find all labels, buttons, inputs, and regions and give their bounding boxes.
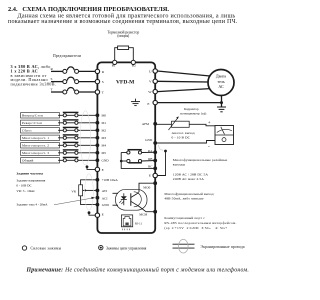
svg-text:ACI: ACI (102, 196, 108, 200)
switch row M5 (21, 150, 107, 156)
svg-text:Зажимы цепи управления: Зажимы цепи управления (106, 247, 147, 251)
terminal T (95, 90, 99, 94)
terminal M3 (96, 136, 100, 140)
terminal GND right (153, 141, 157, 145)
svg-text:M0: M0 (102, 114, 107, 118)
phase R input group (51, 67, 105, 74)
opto body (116, 189, 148, 210)
VFD-M inverter block U1 (97, 62, 155, 233)
terminal U (149, 69, 210, 76)
terminal M4 (96, 143, 100, 147)
node E junction (220, 101, 223, 104)
svg-text:Аналог. выход: Аналог. выход (172, 131, 195, 135)
terminal ACI (96, 196, 100, 200)
wire row GND (58, 159, 97, 161)
terminal RB (153, 159, 157, 163)
terminal M5 (96, 151, 100, 155)
fuse F1 (67, 67, 74, 70)
wire AFM to pot (155, 123, 171, 125)
wire row M5 (58, 152, 97, 154)
wire MCM (139, 206, 155, 211)
switch S-M0 (63, 111, 79, 113)
phase T input group (51, 87, 105, 94)
svg-text:RA: RA (148, 149, 153, 153)
wire relay common (121, 153, 155, 169)
svg-text:120В АС / 28В DC 5А: 120В АС / 28В DC 5А (173, 173, 209, 177)
switch S-M4 (63, 141, 79, 143)
trim potentiometer RP1 (172, 121, 190, 127)
svg-text:B1: B1 (112, 64, 116, 68)
svg-text:Задание напряжения: Задание напряжения (16, 179, 45, 183)
pin marks (123, 229, 130, 231)
switch S-M5 (63, 149, 79, 151)
terminal E right (147, 100, 221, 105)
opto input stubs (113, 192, 119, 194)
wire VR top to +10V (81, 180, 98, 185)
svg-text:+: + (208, 121, 211, 126)
relay contact RA (128, 149, 142, 151)
wire motor to ground (221, 96, 223, 108)
wire B2 lead (129, 48, 134, 63)
wire E shield tie (87, 167, 95, 169)
terminal RC (153, 167, 157, 171)
LED D1 (123, 193, 125, 196)
svg-text:выходы: выходы (173, 162, 186, 166)
wire phase T (51, 91, 63, 93)
svg-text:Вперед/Стоп: Вперед/Стоп (22, 113, 43, 117)
svg-text:M1: M1 (102, 121, 107, 125)
svg-text:RS-485 последовательным интерф: RS-485 последовательным интерфейсом. (164, 221, 236, 225)
terminal MO0 (153, 181, 157, 185)
svg-text:(опция): (опция) (117, 34, 130, 38)
switch S-M1 (63, 119, 79, 121)
svg-text:S: S (102, 80, 104, 84)
terminal GND low (96, 203, 100, 207)
terminal RA (153, 150, 157, 154)
motor M1 (208, 70, 234, 96)
switch row M1 (21, 120, 107, 126)
svg-text:T: T (102, 90, 105, 94)
svg-text:E: E (102, 213, 104, 217)
svg-text:B2: B2 (132, 64, 136, 68)
svg-text:E: E (147, 102, 149, 106)
switch S-M2 (63, 126, 79, 128)
phototransistor Q1 (130, 193, 132, 206)
svg-text:(ар 1:+15V 2:GND 3:SG- 4:: (ар 1:+15V 2:GND 3:SG- 4: SG+ (164, 226, 227, 230)
terminal V (149, 79, 208, 84)
svg-text:Сброс: Сброс (22, 128, 32, 132)
svg-text:Силовые зажимы: Силовые зажимы (31, 247, 62, 251)
svg-text:потенциометр 1кΩ: потенциометр 1кΩ (180, 112, 207, 116)
wire meter minus to GND (155, 141, 215, 144)
terminal R (95, 69, 99, 73)
brake resistor R-BR (118, 46, 129, 50)
svg-text:AVI: AVI (102, 189, 107, 193)
AFM output group (142, 107, 234, 149)
fuse F2 (67, 77, 74, 80)
svg-text:48В 50мА, либо меньше: 48В 50мА, либо меньше (164, 196, 204, 201)
svg-text:E: E (149, 173, 151, 177)
wire phase S (51, 81, 63, 83)
svg-text:-: - (208, 144, 210, 150)
wire E shield tie right (157, 152, 165, 176)
wire row M4 (58, 144, 97, 146)
terminal W (148, 89, 210, 94)
legend control terminal (99, 245, 103, 249)
wire row M1 (58, 122, 97, 124)
wire row M3 (58, 137, 97, 139)
terminal E right lower (149, 145, 167, 178)
wire row M2 (58, 129, 97, 131)
terminal E left (86, 165, 104, 171)
meter P1 (215, 126, 234, 145)
svg-text:VFD-M: VFD-M (116, 80, 135, 86)
svg-text:GND: GND (145, 138, 153, 142)
legend shielded wires (173, 239, 245, 253)
svg-text:MO0: MO0 (143, 186, 150, 190)
svg-text:Предохранители: Предохранители (53, 54, 81, 58)
svg-text:S: S (51, 77, 53, 81)
wire U to motor (157, 71, 210, 76)
terminal M1 (96, 121, 100, 125)
svg-text:RJ-11: RJ-11 (135, 221, 143, 225)
wire W to motor (157, 89, 210, 92)
svg-text:2.4. СХЕМА ПОДКЛЮЧЕНИЯ ПРЕОБ: 2.4. СХЕМА ПОДКЛЮЧЕНИЯ ПРЕОБРАЗОВАТЕЛЯ. (8, 6, 169, 13)
terminal E bottom left (88, 211, 104, 217)
svg-text:Задание частоты: Задание частоты (16, 171, 43, 175)
svg-text:VR: VR (71, 190, 76, 194)
photocoupler MO0 output (113, 189, 148, 210)
svg-text:Коммутационный порт с: Коммутационный порт с (164, 216, 205, 220)
svg-text:MCM: MCM (139, 213, 147, 217)
svg-text:Примечание: Не соединяйте комм: Примечание: Не соединяйте коммуникационн… (26, 267, 250, 274)
wire MO0 (139, 183, 155, 192)
switch row GND (21, 157, 110, 163)
RJ-11 connector J1 (121, 215, 142, 230)
terminal B2 (131, 60, 135, 64)
relay contact RB (128, 162, 141, 164)
svg-text:M2: M2 (102, 129, 107, 133)
svg-text:Реверс/Стоп: Реверс/Стоп (22, 121, 42, 125)
svg-text:подключение 3x380В.: подключение 3x380В. (11, 82, 57, 87)
svg-text:0 - 10 В DC: 0 - 10 В DC (172, 136, 191, 140)
switch row M3 (21, 135, 107, 141)
svg-text:тель: тель (217, 79, 225, 84)
svg-text:W: W (148, 90, 152, 94)
terminal GND (96, 158, 100, 162)
switch S-M3 (63, 134, 79, 136)
legend power terminal (22, 246, 26, 250)
svg-text:Задание тока 4 - 20мА: Задание тока 4 - 20мА (16, 203, 48, 207)
terminal S (95, 79, 99, 83)
svg-text:240В АС макс 2.5А: 240В АС макс 2.5А (173, 177, 204, 181)
svg-text:AFM: AFM (142, 122, 149, 126)
svg-text:Общий: Общий (22, 158, 34, 162)
terminal +10V (96, 178, 100, 182)
svg-text:показывает назначение и возмож: показывает назначение и возможные соедин… (8, 19, 238, 25)
shield ellipse pot wires (85, 174, 94, 210)
wire ACI callout (54, 198, 92, 205)
wire E bottom shield tie (89, 213, 95, 215)
svg-text:Экранированные провода: Экранированные провода (201, 245, 245, 249)
svg-text:GND: GND (102, 159, 110, 163)
svg-text:E: E (102, 168, 104, 172)
phase S input group (51, 77, 104, 84)
terminal M0 (96, 113, 100, 117)
terminal M2 (96, 128, 100, 132)
fuse F3 (67, 87, 74, 90)
wire row M0 (58, 114, 97, 116)
relay output group (120, 149, 157, 170)
terminal AFM (153, 122, 157, 126)
wire pot to meter (189, 124, 215, 126)
wire phase R (51, 70, 63, 72)
svg-text:GND: GND (102, 203, 110, 207)
wire V to motor (157, 80, 208, 83)
svg-text:T: T (51, 87, 54, 91)
svg-text:VR: 3 - 10кΩ: VR: 3 - 10кΩ (16, 189, 35, 193)
switch S-GND (63, 156, 79, 158)
switch row M2 (21, 127, 107, 133)
svg-text:M3: M3 (102, 136, 107, 140)
terminal B1 (113, 60, 117, 64)
potentiometer VR (71, 180, 97, 205)
svg-text:Многоскорост. 2: Многоскорост. 2 (22, 143, 49, 147)
svg-text:0 - 10В DC: 0 - 10В DC (16, 184, 32, 188)
wire E to motor ground (157, 102, 221, 104)
terminal AVI (96, 189, 100, 193)
ground internal (131, 99, 140, 106)
svg-text:V: V (149, 80, 152, 84)
svg-text:R: R (51, 67, 54, 71)
svg-text:R: R (102, 70, 105, 74)
switch row M0 (21, 112, 107, 118)
ground motor (217, 107, 226, 112)
svg-text:+10В 10мА: +10В 10мА (102, 178, 119, 182)
svg-text:Многофункциональный выход: Многофункциональный выход (164, 192, 213, 196)
svg-text:U: U (149, 69, 152, 73)
svg-text:Многоскорост. 3: Многоскорост. 3 (22, 151, 49, 155)
wire VR wiper to AVI (83, 189, 98, 191)
wire VR bottom to GND (81, 196, 98, 205)
svg-text:M5: M5 (102, 151, 107, 155)
svg-text:АС: АС (218, 84, 224, 89)
terminal MCM (153, 210, 157, 214)
shield ellipse control wires (80, 111, 90, 165)
wire B1 lead (115, 48, 118, 63)
svg-text:M4: M4 (102, 144, 107, 148)
svg-text:Многоскорост. 1: Многоскорост. 1 (22, 136, 49, 140)
switch row M4 (21, 142, 107, 148)
svg-text:Двига: Двига (216, 74, 226, 79)
